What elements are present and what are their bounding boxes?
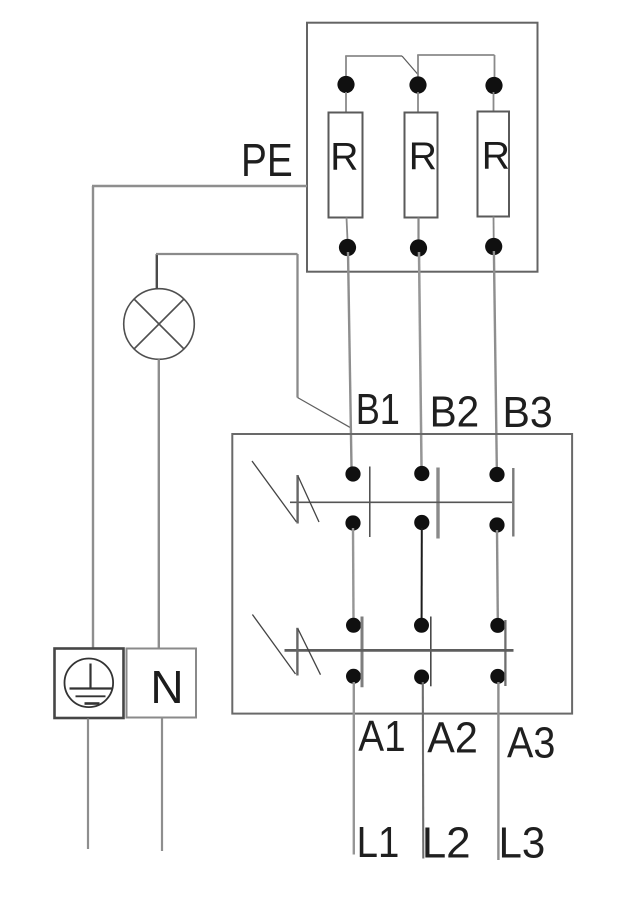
svg-text:A1: A1 bbox=[358, 712, 405, 761]
mechanical linkage: lower contact bank bbox=[285, 649, 514, 652]
contact terminal node: B2 lower bbox=[414, 515, 429, 530]
wire: diagonal link down to junction 2 bbox=[402, 56, 418, 75]
wire: A1 column down to L1 bbox=[353, 682, 355, 855]
svg-text:A2: A2 bbox=[427, 714, 478, 763]
wire: top junction 2 to R2 bbox=[417, 92, 419, 113]
wire: lamp feed diagonal into node B1 bbox=[298, 398, 351, 428]
contact terminal node: B1 upper bbox=[345, 466, 360, 481]
svg-text:B2: B2 bbox=[430, 388, 480, 437]
wire: below neutral terminal bbox=[161, 718, 163, 852]
trip actuator: lower bank diagonal bbox=[252, 615, 295, 675]
wire: pole 2 link between banks bbox=[421, 528, 423, 620]
contact bridge bar: pole 3 lower bank bbox=[504, 620, 506, 686]
svg-text:R: R bbox=[482, 134, 510, 177]
wire: R2 to bottom junction 2 bbox=[417, 218, 419, 242]
svg-text:A3: A3 bbox=[507, 718, 555, 767]
wire: lamp feed vertical run bbox=[296, 254, 298, 398]
wire: PE vertical run down to earth terminal bbox=[92, 186, 94, 648]
contact terminal node: B1 lower bbox=[345, 515, 360, 530]
mechanical linkage: upper contact bank bbox=[290, 501, 512, 503]
junction node: top of R3 bbox=[485, 77, 502, 94]
contact bridge bar: pole 3 upper bank bbox=[512, 468, 514, 537]
junction node: bottom of R1 bbox=[339, 239, 356, 256]
svg-text:L3: L3 bbox=[499, 819, 546, 868]
trip actuator: lower bank second diagonal bbox=[298, 629, 321, 675]
contact terminal node: A3 upper bbox=[490, 618, 505, 633]
contact terminal node: A1 upper bbox=[346, 618, 361, 633]
svg-text:PE: PE bbox=[241, 134, 293, 186]
svg-text:L1: L1 bbox=[357, 818, 400, 867]
resistor R (right) with value label R bbox=[478, 112, 510, 217]
wire: top junction 1 to R1 bbox=[345, 92, 347, 113]
svg-text:N: N bbox=[150, 661, 183, 713]
resistor R (middle) with value label R bbox=[405, 113, 438, 218]
contact terminal node: A1 lower bbox=[346, 669, 361, 684]
neutral terminal N (box with label) bbox=[127, 649, 197, 718]
svg-text:R: R bbox=[330, 136, 358, 179]
junction node: bottom of R2 bbox=[410, 239, 427, 256]
wire: column 1 from R1 down to contact bank B1 bbox=[348, 252, 352, 467]
wire: lamp feed horizontal run bbox=[156, 253, 298, 255]
wire: pole 3 link between banks bbox=[496, 530, 499, 620]
enclosure box: contactor / switch block bbox=[232, 434, 572, 714]
trip actuator: upper bank lever bar bbox=[296, 475, 298, 524]
wire: top junction 3 to R3 bbox=[493, 92, 495, 112]
wire: A3 column down to L3 bbox=[497, 682, 499, 860]
trip actuator: upper bank diagonal bbox=[252, 461, 297, 522]
contact terminal node: B2 upper bbox=[414, 466, 429, 481]
contact terminal node: A2 lower bbox=[414, 670, 429, 685]
wire: below earth terminal bbox=[87, 719, 89, 850]
contact bridge bar: pole 2 lower bank bbox=[430, 617, 432, 687]
wire: A2 column down to L2 bbox=[422, 682, 425, 859]
protective earth terminal (PE symbol in box) bbox=[55, 649, 124, 719]
trip actuator: lower bank lever bar bbox=[296, 628, 298, 676]
junction node: top of R2 bbox=[409, 76, 426, 93]
contact terminal node: B3 lower bbox=[489, 517, 504, 532]
wire: drop down to top junction 3 bbox=[494, 55, 496, 85]
resistor R (left) with value label R bbox=[329, 113, 363, 218]
junction node: top of R1 bbox=[337, 76, 354, 93]
wire: column 3 from R3 down to contact bank B3 bbox=[494, 251, 497, 467]
contact bridge bar: pole 1 lower bank bbox=[361, 617, 364, 688]
contact terminal node: A3 lower bbox=[490, 669, 505, 684]
wire: column 2 from R2 down to contact bank B2 bbox=[419, 252, 422, 466]
contact bridge bar: pole 1 upper bank bbox=[369, 467, 371, 538]
svg-text:B1: B1 bbox=[356, 385, 400, 434]
junction node: bottom of R3 bbox=[485, 238, 502, 255]
wire: lamp top stub bbox=[156, 254, 158, 289]
svg-text:B3: B3 bbox=[503, 388, 553, 437]
contact terminal node: A2 upper bbox=[414, 618, 429, 633]
wire: pole 1 link between banks bbox=[352, 528, 355, 620]
wire: R1 to bottom junction 1 bbox=[347, 218, 348, 241]
wire: stub up from top junction 2 bbox=[417, 55, 419, 84]
wire: horizontal link from junction 1 bbox=[345, 55, 402, 57]
wire: stub up from top junction 1 bbox=[345, 56, 347, 84]
wire: PE horizontal run to resistor box bbox=[92, 185, 307, 187]
svg-text:R: R bbox=[409, 135, 437, 178]
wire: R3 to bottom junction 3 bbox=[493, 217, 495, 240]
wire: horizontal link junction 2 to junction 3 bbox=[417, 54, 494, 56]
lamp (indicator light) bbox=[124, 289, 195, 360]
enclosure box: resistor bank bbox=[307, 23, 538, 272]
wire: lamp bottom run to neutral terminal bbox=[158, 359, 160, 648]
svg-text:L2: L2 bbox=[422, 819, 471, 868]
contact bridge bar: pole 2 upper bank bbox=[436, 468, 439, 539]
trip actuator: upper bank second diagonal bbox=[298, 477, 319, 523]
contact terminal node: B3 upper bbox=[489, 467, 504, 482]
